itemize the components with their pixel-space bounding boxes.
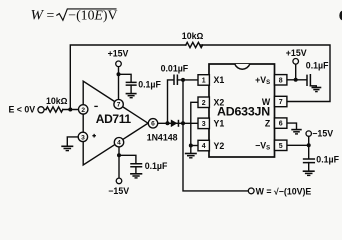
svg-text:0.1µF: 0.1µF	[138, 79, 161, 89]
svg-text:Y2: Y2	[214, 141, 225, 151]
svg-text:0.1µF: 0.1µF	[306, 61, 329, 71]
svg-text:10kΩ: 10kΩ	[182, 31, 204, 41]
svg-text:−15V: −15V	[108, 186, 129, 196]
svg-text:6: 6	[151, 121, 155, 128]
svg-text:1N4148: 1N4148	[147, 132, 178, 142]
svg-text:1: 1	[202, 78, 206, 85]
svg-text:3: 3	[81, 134, 85, 141]
svg-text:0.1µF: 0.1µF	[316, 154, 339, 164]
svg-text:4: 4	[117, 140, 121, 147]
svg-text:0.1µF: 0.1µF	[145, 161, 168, 171]
svg-text:8: 8	[279, 77, 283, 84]
svg-text:4: 4	[202, 143, 206, 150]
svg-text:W = √−(10V)E: W = √−(10V)E	[256, 187, 312, 197]
svg-text:+15V: +15V	[286, 48, 307, 58]
svg-text:−(10E)V: −(10E)V	[68, 8, 117, 24]
svg-text:W: W	[31, 8, 45, 24]
svg-text:Y1: Y1	[214, 119, 225, 129]
svg-text:=: =	[47, 8, 55, 23]
svg-text:2: 2	[81, 107, 85, 114]
svg-text:7: 7	[279, 99, 283, 106]
svg-text:AD711: AD711	[96, 112, 132, 126]
svg-text:3: 3	[202, 121, 206, 128]
svg-text:+15V: +15V	[108, 49, 129, 59]
svg-text:7: 7	[117, 102, 121, 109]
svg-text:0.01µF: 0.01µF	[161, 64, 189, 74]
svg-text:X1: X1	[214, 75, 225, 85]
svg-text:−15V: −15V	[312, 128, 333, 138]
svg-text:2: 2	[202, 100, 206, 107]
svg-text:E < 0V: E < 0V	[9, 104, 36, 114]
svg-text:AD633JN: AD633JN	[217, 104, 270, 118]
svg-text:Z: Z	[265, 118, 271, 128]
svg-text:10kΩ: 10kΩ	[46, 96, 68, 106]
svg-text:5: 5	[279, 143, 283, 150]
svg-text:6: 6	[279, 121, 283, 128]
